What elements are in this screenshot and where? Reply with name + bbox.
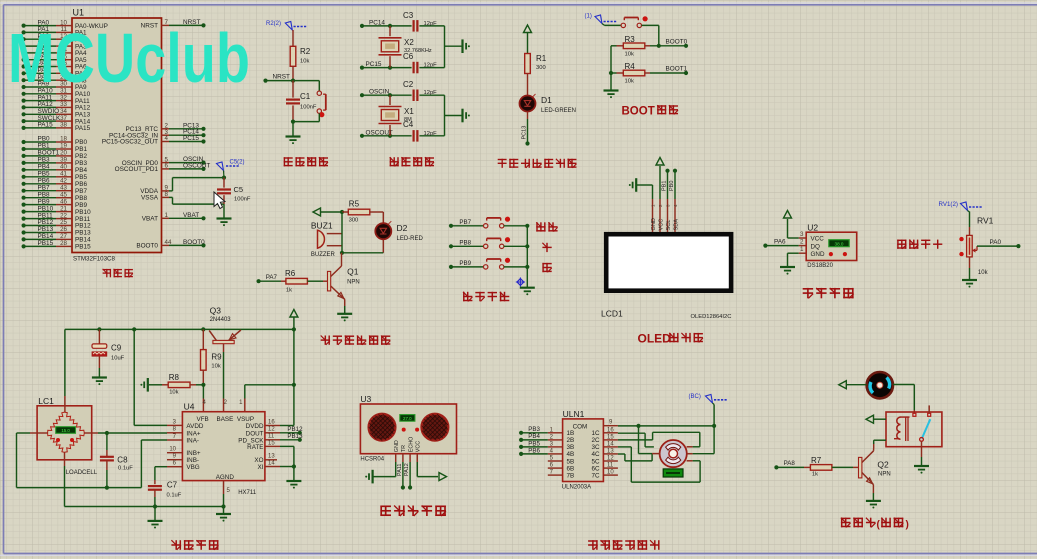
wire DVDD to rail bbox=[280, 425, 294, 427]
svg-text:C2: C2 bbox=[403, 80, 414, 89]
svg-text:BASE: BASE bbox=[217, 416, 234, 423]
svg-text:OSCOUT: OSCOUT bbox=[183, 162, 210, 169]
svg-text:ULN1: ULN1 bbox=[563, 409, 585, 419]
svg-text:43: 43 bbox=[60, 184, 67, 191]
svg-text:TR: TR bbox=[401, 445, 407, 452]
svg-text:PB4: PB4 bbox=[528, 433, 540, 440]
svg-text:R7: R7 bbox=[811, 456, 822, 465]
svg-text:PB8: PB8 bbox=[459, 239, 471, 246]
resistor R3 10k bbox=[617, 35, 687, 58]
svg-text:VCC: VCC bbox=[811, 236, 825, 243]
power terminal (indicator) bbox=[524, 25, 532, 54]
wire BC to motor right-mid bbox=[693, 426, 715, 454]
svg-text:(1): (1) bbox=[585, 14, 592, 20]
svg-text:GND: GND bbox=[651, 218, 657, 230]
svg-text:XI: XI bbox=[258, 464, 264, 471]
wire/pin PB8 (pin 45) bbox=[22, 191, 88, 202]
svg-text:21: 21 bbox=[60, 205, 67, 212]
svg-text:PB12: PB12 bbox=[287, 426, 303, 433]
svg-text:12pF: 12pF bbox=[424, 131, 438, 137]
svg-text:C3: C3 bbox=[403, 11, 414, 20]
wire/pin SWDIO (pin 34) bbox=[22, 108, 91, 119]
power (OLED pin2) bbox=[656, 158, 664, 200]
wire PA11 (TR) bbox=[397, 462, 405, 490]
resistor R8 10k bbox=[162, 373, 203, 396]
svg-text:VSUP: VSUP bbox=[237, 416, 254, 423]
wire PA12 (ECHO) bbox=[404, 462, 412, 490]
pin VBAT (pin 1) net VBAT bbox=[142, 212, 206, 223]
wire/pin PB9 (pin 46) bbox=[22, 198, 88, 209]
loadcell LC1 bbox=[37, 396, 98, 476]
wire/pin PA5 (pin 15) bbox=[22, 53, 88, 64]
module U3 HCSR04 bbox=[360, 394, 456, 462]
svg-text:PB0: PB0 bbox=[669, 181, 675, 191]
capacitor C3 12pF bbox=[403, 11, 437, 32]
label 减 bbox=[542, 263, 551, 272]
svg-text:27: 27 bbox=[60, 233, 67, 240]
svg-text:R2(2): R2(2) bbox=[266, 21, 281, 27]
svg-text:SDA: SDA bbox=[673, 219, 679, 231]
svg-text:10uF: 10uF bbox=[111, 356, 125, 362]
pin PC13_RTC (pin 2) net PC13 bbox=[125, 122, 205, 133]
push button (reset) bbox=[317, 81, 326, 122]
ground (C9) bbox=[92, 378, 107, 386]
LED D2 LED-RED bbox=[375, 212, 423, 253]
svg-text:INA-: INA- bbox=[186, 437, 199, 444]
module U2 DS18B20 bbox=[806, 223, 857, 270]
svg-text:28: 28 bbox=[60, 240, 67, 247]
svg-text:R1: R1 bbox=[536, 54, 547, 63]
pin NRST (pin 7) net NRST bbox=[141, 19, 206, 30]
crystal X1 8M bbox=[379, 95, 415, 136]
svg-text:10k: 10k bbox=[300, 59, 309, 65]
svg-text:11: 11 bbox=[607, 463, 614, 469]
transistor Q1 NPN bbox=[328, 253, 360, 299]
ULN1 right pin stubs bbox=[603, 420, 618, 476]
svg-text:PB7: PB7 bbox=[38, 184, 51, 191]
wire/pin PA7 (pin 17) bbox=[22, 67, 88, 78]
svg-text:PA12: PA12 bbox=[404, 463, 410, 476]
svg-text:BOOT0: BOOT0 bbox=[183, 239, 205, 246]
resistor R5 300 bbox=[342, 200, 383, 224]
buttons common rail + ground bbox=[520, 226, 535, 295]
svg-text:38.0: 38.0 bbox=[835, 241, 844, 246]
bottom wire (LC1/AGND) bbox=[65, 504, 226, 508]
svg-text:2B: 2B bbox=[567, 437, 575, 444]
ground (reset) bbox=[286, 122, 301, 145]
net label NRST / wire bbox=[263, 74, 319, 83]
wire/pin PB14 (pin 27) bbox=[22, 233, 92, 244]
svg-text:300: 300 bbox=[536, 65, 546, 71]
pin VSSA (pin 8) bbox=[141, 191, 169, 202]
svg-text:C8: C8 bbox=[117, 456, 128, 465]
svg-text:U1: U1 bbox=[73, 8, 85, 18]
wire/pin SWCLK (pin 37) bbox=[22, 115, 91, 126]
wire RATE/XI to ground bbox=[280, 446, 301, 488]
U4 AGND pin bbox=[224, 481, 231, 507]
svg-text:4C: 4C bbox=[591, 451, 600, 458]
chip U4 HX711 bbox=[182, 400, 265, 496]
svg-text:PA6: PA6 bbox=[774, 239, 786, 246]
power terminal (weighing) bbox=[290, 310, 298, 330]
svg-text:PA15: PA15 bbox=[75, 125, 91, 132]
resistor R4 10k bbox=[611, 62, 686, 85]
wire/pin PB0 (pin 18) bbox=[22, 136, 88, 147]
svg-text:Q3: Q3 bbox=[210, 306, 222, 316]
svg-text:Q2: Q2 bbox=[877, 460, 889, 470]
LC1 bottom pin bbox=[64, 452, 66, 506]
wire/pin PA8 (pin 29) bbox=[22, 74, 88, 85]
svg-text:VBAT: VBAT bbox=[183, 212, 199, 219]
ground (C7) bbox=[148, 507, 163, 529]
svg-text:PB12: PB12 bbox=[75, 223, 91, 230]
wire/pin PA2 (pin 12) bbox=[22, 33, 88, 44]
svg-text:DQ: DQ bbox=[811, 243, 821, 250]
wire AVDD from rail bbox=[134, 329, 167, 425]
svg-text:27.0: 27.0 bbox=[403, 416, 412, 421]
svg-text:5C: 5C bbox=[591, 458, 600, 465]
svg-text:R5: R5 bbox=[349, 200, 360, 209]
svg-text:OLED: OLED bbox=[638, 332, 672, 346]
label OLED显示屏 bbox=[638, 332, 703, 346]
svg-text:PB4: PB4 bbox=[38, 164, 51, 171]
svg-text:0.1uF: 0.1uF bbox=[167, 493, 182, 499]
wire relay coil to Q2 collector bbox=[874, 440, 886, 448]
right rail + ground bbox=[445, 26, 470, 68]
svg-text:PB5: PB5 bbox=[38, 171, 51, 178]
wire PB13 (PD_SCK) bbox=[280, 433, 303, 442]
svg-text:7B: 7B bbox=[567, 472, 575, 479]
wire VBG to C7 bbox=[155, 467, 167, 485]
svg-text:C5(2): C5(2) bbox=[230, 160, 245, 166]
svg-text:R6: R6 bbox=[285, 269, 296, 278]
svg-text:15: 15 bbox=[268, 440, 275, 446]
svg-text:2C: 2C bbox=[591, 437, 600, 444]
svg-text:PB9: PB9 bbox=[38, 198, 51, 205]
LC1 right pin wire to INA+ bbox=[84, 431, 167, 435]
ULN1 left pin stubs bbox=[548, 427, 563, 475]
svg-text:LED-GREEN: LED-GREEN bbox=[541, 108, 576, 114]
transistor Q2 NPN bbox=[859, 449, 891, 485]
svg-text:PB0: PB0 bbox=[75, 139, 88, 146]
svg-text:PC14: PC14 bbox=[369, 19, 385, 26]
ground (U2 GND) bbox=[780, 253, 799, 274]
svg-text:STM32F103C8: STM32F103C8 bbox=[73, 256, 116, 263]
svg-text:U4: U4 bbox=[184, 402, 195, 412]
svg-text:PB0: PB0 bbox=[38, 136, 51, 143]
svg-text:6C: 6C bbox=[591, 465, 600, 472]
svg-text:BOOT0: BOOT0 bbox=[136, 243, 158, 250]
resistor R6 1k + wire PA7 bbox=[257, 269, 328, 294]
wire/pin PB3 (pin 39) bbox=[22, 157, 88, 168]
relay RL (coil + switch) bbox=[886, 405, 942, 446]
wire/pin PB5 (pin 41) bbox=[22, 171, 88, 182]
svg-text:300: 300 bbox=[349, 218, 359, 224]
svg-text:PC15-OSC32_OUT: PC15-OSC32_OUT bbox=[102, 139, 158, 146]
label 称重模块 bbox=[171, 540, 218, 550]
power (U3 VCC) bbox=[417, 462, 446, 481]
wire/pin PB11 (pin 22) bbox=[22, 212, 91, 223]
svg-text:6B: 6B bbox=[567, 465, 575, 472]
svg-text:7C: 7C bbox=[591, 472, 600, 479]
label 加 bbox=[542, 243, 551, 252]
svg-text:PB10: PB10 bbox=[38, 205, 54, 212]
watermark MCUclub bbox=[8, 19, 250, 97]
svg-text:R2: R2 bbox=[300, 47, 311, 56]
wire PB0 (SDA) bbox=[669, 169, 677, 199]
svg-text:1k: 1k bbox=[286, 288, 292, 294]
svg-text:PB9: PB9 bbox=[75, 202, 88, 209]
U4 left pin stubs + numbers bbox=[167, 419, 182, 466]
svg-text:4: 4 bbox=[165, 135, 169, 142]
svg-text:10k: 10k bbox=[169, 390, 178, 396]
capacitor C5 100nF bbox=[217, 178, 251, 205]
svg-text:PC15: PC15 bbox=[366, 61, 382, 68]
wire OSCIN row bbox=[360, 89, 445, 98]
potentiometer RV1 10k bbox=[959, 212, 993, 277]
svg-text:R9: R9 bbox=[211, 353, 222, 362]
wire/pin PA12 (pin 33) bbox=[22, 101, 91, 112]
wire/pin PB4 (pin 40) bbox=[22, 164, 88, 175]
svg-text:(BC): (BC) bbox=[689, 394, 701, 400]
svg-text:OSCOUT: OSCOUT bbox=[366, 129, 393, 136]
svg-text:U2: U2 bbox=[807, 223, 818, 233]
svg-text:20: 20 bbox=[60, 150, 67, 157]
svg-text:PC13: PC13 bbox=[522, 126, 528, 140]
svg-text:PC15: PC15 bbox=[183, 135, 199, 142]
svg-text:10k: 10k bbox=[978, 270, 989, 276]
crystal X2 32.768KHz bbox=[379, 26, 432, 68]
wire fan to relay bbox=[893, 385, 914, 415]
svg-text:PA0: PA0 bbox=[990, 239, 1002, 246]
svg-text:14: 14 bbox=[268, 460, 275, 466]
svg-text:25: 25 bbox=[60, 219, 67, 226]
svg-text:PB7: PB7 bbox=[459, 219, 471, 226]
svg-text:13: 13 bbox=[268, 454, 275, 460]
svg-text:1C: 1C bbox=[591, 430, 600, 437]
wire/pin PA3 (pin 13) bbox=[22, 40, 88, 51]
svg-text:PB5: PB5 bbox=[528, 440, 540, 447]
push button PB7 bbox=[449, 217, 530, 228]
wire INA- net (bottom horizontal) bbox=[17, 440, 168, 490]
svg-text:Q1: Q1 bbox=[347, 267, 359, 277]
wire/pin PA15 (pin 38) bbox=[22, 122, 91, 133]
wire bottom of reset bbox=[291, 120, 319, 124]
wire PB12 (DOUT) bbox=[280, 426, 303, 435]
svg-text:2N4403: 2N4403 bbox=[210, 317, 232, 323]
wire VDDA to C5 bbox=[169, 176, 226, 191]
svg-text:RV1(2): RV1(2) bbox=[939, 201, 959, 208]
svg-text:VFB: VFB bbox=[197, 416, 209, 423]
wire 3C to motor right-bottom (detour) bbox=[618, 447, 700, 482]
wire LED to emitter row bbox=[340, 251, 383, 255]
ground (relay contact) bbox=[914, 441, 929, 473]
svg-text:GND: GND bbox=[394, 440, 400, 452]
U4 right pin stubs + numbers bbox=[265, 419, 280, 466]
ground (Q2 emitter) bbox=[866, 485, 881, 509]
svg-text:12: 12 bbox=[607, 456, 614, 462]
wire 2C to motor right-top bbox=[618, 432, 700, 447]
svg-text:ECHO: ECHO bbox=[408, 437, 414, 453]
wire/pin PB6 (pin 42) bbox=[22, 178, 88, 189]
wire/pin PA1 (pin 11) bbox=[22, 26, 88, 36]
svg-text:MCUclub: MCUclub bbox=[8, 19, 250, 97]
svg-text:38: 38 bbox=[60, 122, 67, 129]
svg-text:0.1uF: 0.1uF bbox=[118, 466, 133, 472]
LC1 left pin wire bbox=[17, 433, 48, 488]
svg-text:VBAT: VBAT bbox=[142, 216, 158, 223]
svg-text:LCD1: LCD1 bbox=[601, 309, 623, 319]
svg-text:8: 8 bbox=[165, 191, 169, 198]
svg-text:R4: R4 bbox=[625, 62, 636, 71]
svg-text:NPN: NPN bbox=[347, 280, 360, 286]
svg-text:PB2: PB2 bbox=[75, 153, 88, 160]
svg-text:C7: C7 bbox=[167, 481, 178, 490]
mouse cursor bbox=[214, 192, 225, 209]
net BOOT0 bbox=[666, 39, 689, 48]
svg-text:PB5: PB5 bbox=[75, 174, 88, 181]
wires PB3-PB6 to ULN inputs bbox=[519, 426, 548, 456]
pin VDDA (pin 9) bbox=[140, 185, 169, 196]
svg-text:LOADCELL: LOADCELL bbox=[66, 470, 98, 476]
terminal C5(2) bbox=[217, 160, 245, 178]
pin BOOT0 (pin 44) net BOOT0 bbox=[136, 239, 205, 250]
LC1 top pin to rail bbox=[64, 329, 66, 412]
svg-text:INA+: INA+ bbox=[186, 430, 200, 437]
svg-text:DOUT: DOUT bbox=[246, 430, 264, 437]
label 声光报警电路 bbox=[321, 336, 391, 345]
svg-text:100nF: 100nF bbox=[300, 105, 317, 111]
svg-text:5B: 5B bbox=[567, 458, 575, 465]
svg-text:10: 10 bbox=[169, 447, 176, 453]
no-ERC marker (blue) bbox=[516, 277, 525, 286]
chip ULN1 ULN2003A bbox=[562, 409, 604, 491]
wire PA6 (U2 DQ) bbox=[763, 239, 798, 248]
capacitor C2 12pF bbox=[403, 80, 437, 101]
svg-text:PB3: PB3 bbox=[528, 426, 540, 433]
svg-text:OSCIN: OSCIN bbox=[369, 89, 390, 96]
wire 4C bbox=[618, 454, 652, 461]
terminal (BC) bbox=[689, 394, 728, 405]
fan (pump) icon bbox=[867, 372, 893, 398]
svg-text:16: 16 bbox=[607, 427, 614, 433]
wire PA0 (RV1 wiper) bbox=[977, 239, 1021, 248]
svg-text:C1: C1 bbox=[300, 92, 311, 101]
terminal (1) bbox=[585, 14, 617, 26]
svg-text:C9: C9 bbox=[111, 344, 122, 353]
push button PB9 bbox=[449, 258, 530, 269]
wire PC13 below LED bbox=[522, 112, 530, 146]
capacitor C7 0.1uF bbox=[148, 481, 182, 507]
resistor R1 300 bbox=[525, 54, 547, 96]
right rail + ground bbox=[445, 95, 470, 136]
svg-text:10: 10 bbox=[607, 470, 614, 476]
svg-text:PA11: PA11 bbox=[397, 464, 403, 476]
pin PC15-OSC32_OUT (pin 4) net PC15 bbox=[102, 135, 206, 146]
svg-text:12pF: 12pF bbox=[424, 63, 438, 69]
terminal R2(2) bbox=[266, 21, 307, 30]
svg-text:PB15: PB15 bbox=[38, 240, 54, 247]
svg-text:PB9: PB9 bbox=[459, 260, 471, 267]
wire/pin PB12 (pin 25) bbox=[22, 219, 92, 230]
label 超声波模块 bbox=[380, 506, 446, 517]
capacitor C9 10uF (polarized) bbox=[92, 329, 125, 377]
svg-text:15: 15 bbox=[607, 434, 614, 440]
label 程序运行指示灯 bbox=[498, 159, 577, 168]
label 烟雾调节 bbox=[897, 240, 942, 249]
wire 1C bbox=[618, 433, 654, 447]
svg-text:VBG: VBG bbox=[186, 464, 199, 471]
wire PC15 row bbox=[360, 61, 445, 70]
svg-text:GND: GND bbox=[811, 251, 825, 258]
svg-text:BOOT0: BOOT0 bbox=[666, 39, 688, 46]
power terminal (relay coil) bbox=[866, 415, 886, 423]
power terminal (alarm, left arrow) bbox=[313, 208, 344, 216]
svg-text:LC1: LC1 bbox=[38, 396, 54, 406]
svg-text:VCC: VCC bbox=[416, 441, 422, 452]
svg-text:AGND: AGND bbox=[216, 474, 235, 481]
svg-text:12pF: 12pF bbox=[424, 21, 438, 27]
svg-text:BOOT1: BOOT1 bbox=[38, 150, 60, 157]
label 测温模块 bbox=[803, 288, 854, 298]
svg-text:DS18B20: DS18B20 bbox=[807, 263, 833, 269]
svg-text:SCL: SCL bbox=[666, 220, 672, 231]
OLED pins GND VCC SCL SDA bbox=[651, 199, 680, 232]
svg-text:18: 18 bbox=[60, 136, 67, 143]
wire/pin PB13 (pin 26) bbox=[22, 226, 92, 237]
push button PB8 bbox=[449, 237, 530, 248]
svg-text:14: 14 bbox=[607, 441, 614, 447]
LED D1 LED-GREEN bbox=[520, 94, 577, 114]
wire PB1 (SCL) bbox=[662, 169, 670, 199]
svg-text:NRST: NRST bbox=[273, 74, 290, 81]
svg-text:): ) bbox=[906, 520, 909, 531]
ground (boot) bbox=[604, 73, 619, 98]
svg-text:PB15: PB15 bbox=[75, 244, 91, 251]
wire/pin PB15 (pin 28) bbox=[22, 240, 92, 251]
svg-text:32.768KHz: 32.768KHz bbox=[404, 48, 432, 54]
svg-text:40: 40 bbox=[60, 164, 67, 171]
resistor R2 10k bbox=[290, 30, 311, 81]
svg-text:BUZZER: BUZZER bbox=[311, 252, 336, 258]
wire OSCOUT row bbox=[360, 129, 445, 138]
svg-text:X2: X2 bbox=[404, 38, 414, 47]
svg-text:13: 13 bbox=[607, 448, 614, 454]
push button (boot) bbox=[605, 16, 659, 27]
svg-text:D1: D1 bbox=[541, 95, 552, 105]
svg-text:3C: 3C bbox=[591, 444, 600, 451]
wire/pin PA9 (pin 30) bbox=[22, 81, 88, 92]
svg-text:RATE: RATE bbox=[247, 444, 263, 451]
pin OSCIN_PD0 (pin 5) net OSCIN bbox=[122, 156, 206, 167]
ground (AGND) bbox=[216, 507, 231, 522]
wire PC14 row bbox=[360, 19, 445, 28]
svg-text:12pF: 12pF bbox=[424, 90, 438, 96]
ground (OLED pin1) bbox=[629, 178, 653, 199]
stepper motor bbox=[652, 440, 693, 467]
stepper display bbox=[663, 469, 683, 477]
wire/pin PA11 (pin 32) bbox=[22, 94, 91, 105]
capacitor C6 12pF bbox=[403, 52, 437, 73]
svg-text:10k: 10k bbox=[625, 79, 634, 85]
wire/pin PA10 (pin 31) bbox=[22, 88, 91, 99]
ground (Q1 emitter) bbox=[337, 299, 352, 321]
svg-text:BUZ1: BUZ1 bbox=[311, 221, 333, 231]
svg-text:PB13: PB13 bbox=[287, 433, 303, 440]
capacitor C1 100nF bbox=[286, 81, 317, 122]
svg-text:NPN: NPN bbox=[878, 472, 891, 478]
svg-text:PA7: PA7 bbox=[266, 274, 278, 281]
